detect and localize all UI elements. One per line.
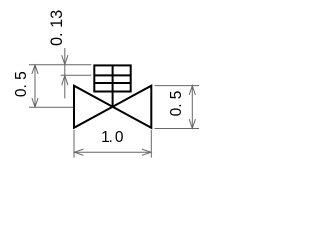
svg-text:0. 5: 0. 5 (168, 91, 185, 117)
svg-text:0. 5: 0. 5 (13, 71, 30, 97)
svg-text:1. 0: 1. 0 (101, 129, 124, 146)
svg-text:0. 13: 0. 13 (48, 10, 66, 46)
